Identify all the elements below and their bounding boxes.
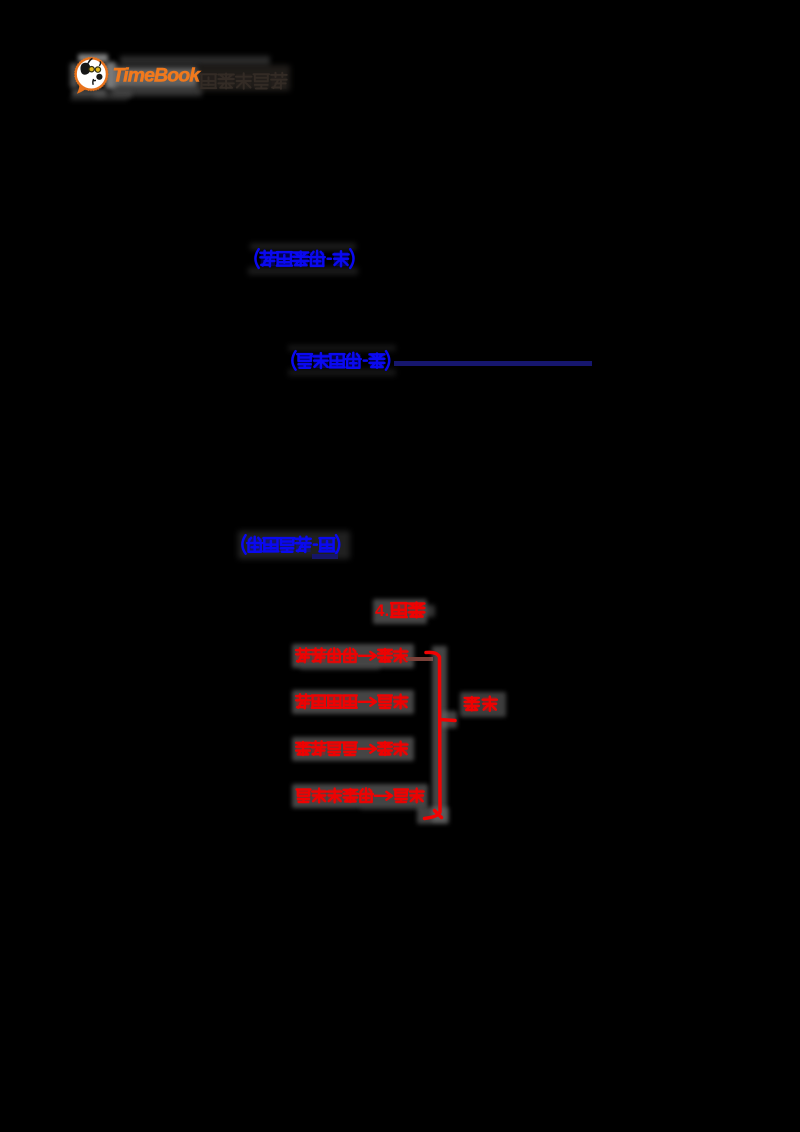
blue header 1 <box>0 0 800 300</box>
dog ear <box>80 63 90 75</box>
grey halo brace column <box>432 646 447 822</box>
nose <box>96 74 102 80</box>
red brace } <box>0 0 800 900</box>
grey halo red line 4 <box>292 784 428 808</box>
red line 1 <box>0 0 800 900</box>
red line 3 <box>0 0 800 900</box>
faint halo blue header 2 <box>288 345 396 351</box>
red lesson number 4. <box>375 601 397 621</box>
red line 4 <box>0 0 800 900</box>
long navy horizontal rule <box>394 361 592 366</box>
dull red connector dash (line1 to brace) <box>406 657 433 662</box>
grey halo red line 1 <box>292 644 414 668</box>
grey halo blue header 3 <box>238 531 350 559</box>
logo mascot: speech bubble with dog face <box>66 48 306 104</box>
grey halo red line 2 <box>292 690 414 714</box>
logo halo blocks <box>78 54 108 62</box>
red label glyphs <box>0 0 800 800</box>
blue header 3 <box>0 0 800 600</box>
logo chinese subtitle (dark, barely visible) <box>0 0 320 110</box>
glasses / eyes <box>89 67 94 72</box>
grey halo red title <box>373 599 427 624</box>
grey halo red line 3 <box>292 737 414 761</box>
blue header 2 <box>0 0 800 400</box>
red line 2 <box>0 0 800 900</box>
faint halo above/below blue header 1 <box>250 243 356 250</box>
red title glyphs <box>0 0 800 700</box>
mouth <box>93 79 96 85</box>
short navy underline under header 3 <box>312 554 338 559</box>
grey halo label <box>460 692 506 717</box>
